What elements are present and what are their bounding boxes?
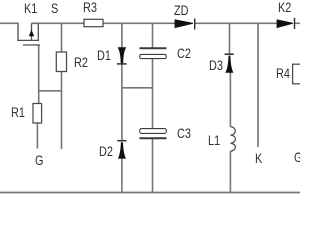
wire top bus from R3 to ZD [103,22,176,24]
zener diode ZD [175,19,195,30]
capacitor C2 [140,48,167,58]
wire D1 branch upper [121,23,123,47]
wire C2 branch upper [152,23,154,47]
label R1 [11,105,25,119]
label D3 [209,58,223,72]
inductor L1 [230,127,235,151]
label K terminal [255,151,262,165]
resistor R1 [33,104,42,124]
resistor R3 [84,19,103,26]
wire R2 branch lower [61,72,63,150]
wire top bus left segment [0,22,19,24]
wire top bus from transistor to R3 [32,22,85,24]
label C3 [177,126,191,140]
wire gate node to R2 branch connector [38,90,62,92]
label R4 [276,66,290,80]
wire C2 to C3 [152,58,154,128]
label G terminal [35,153,43,167]
label R3 [83,0,97,14]
label R2 [74,55,88,69]
wire D1/D2 branch to C2/C3 branch connector [121,87,153,89]
wire R1 to G terminal [36,123,38,149]
wire top bus from ZD to diode K2 [195,22,278,24]
wire gate to R1 [38,45,40,104]
wire C3 to bottom bus [152,138,154,192]
diode at K2 [277,18,295,29]
label ZD [174,3,189,17]
label K1 [24,1,37,15]
label S [51,1,58,15]
diode D1 [117,47,127,64]
diode D3 [225,54,234,72]
diode D2 [117,141,126,159]
wire D1 to D2 [121,64,123,141]
label D1 [97,48,111,62]
wire R2 branch upper [61,23,63,52]
resistor R2 [56,52,66,72]
label C2 [177,46,191,60]
wire D3 branch upper [229,23,231,54]
wire D3 to L1 [229,73,231,128]
label L1 [208,133,220,147]
label D2 [99,144,113,158]
label K2 [278,0,291,14]
label G partial at right edge [294,150,302,164]
resistor R4 (cut off at right edge) [293,64,303,84]
wire bottom bus [0,192,300,194]
wire D2 to bottom bus [121,158,123,192]
wire K branch (open terminal) [257,23,259,147]
wire top bus right stub [295,22,301,24]
wire L1 to bottom bus [229,151,231,192]
capacitor C3 [140,129,167,139]
transistor K1 [18,23,40,45]
